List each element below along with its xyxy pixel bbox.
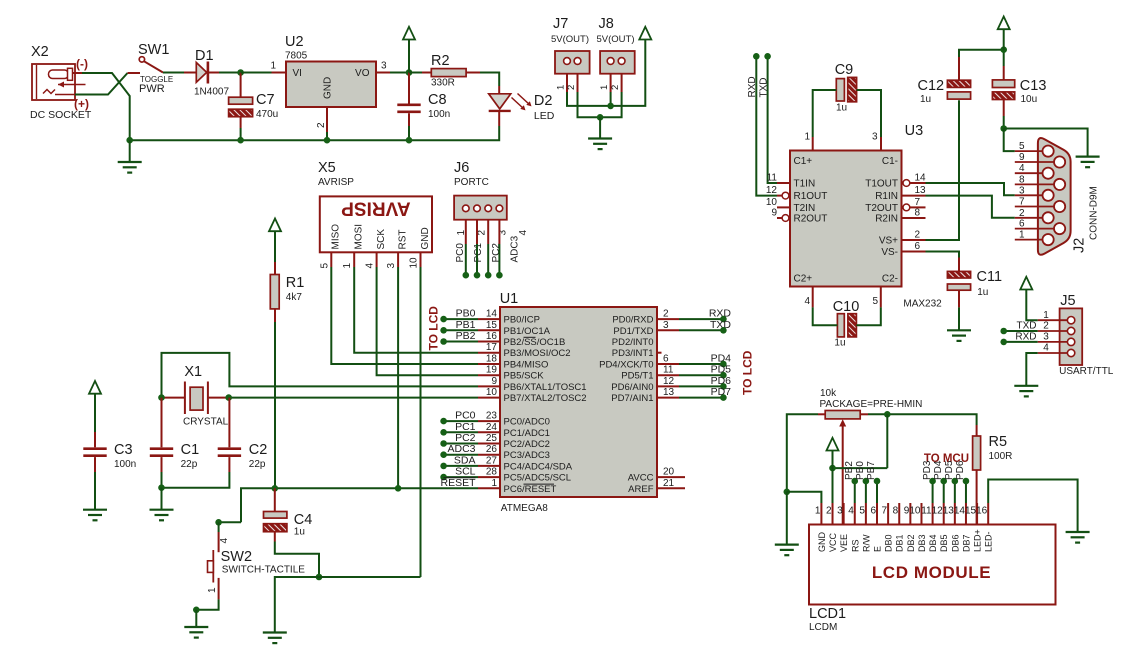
junction C1 ground node <box>158 484 165 491</box>
svg-text:DB7: DB7 <box>961 534 971 552</box>
svg-text:T1OUT: T1OUT <box>865 179 898 190</box>
svg-text:R1IN: R1IN <box>875 191 898 202</box>
svg-text:14: 14 <box>486 309 498 320</box>
svg-text:5V(OUT): 5V(OUT) <box>551 34 589 45</box>
ground symbol below J7/J8 <box>588 139 612 150</box>
svg-text:14: 14 <box>954 506 966 517</box>
svg-text:R1OUT: R1OUT <box>794 191 828 202</box>
svg-text:1u: 1u <box>836 103 847 114</box>
svg-text:6: 6 <box>870 506 876 517</box>
svg-text:3: 3 <box>386 263 397 269</box>
wire LCD pin 5 to net PB0 <box>865 481 867 503</box>
svg-text:CRYSTAL: CRYSTAL <box>183 417 229 428</box>
svg-text:DB0: DB0 <box>884 534 894 552</box>
svg-text:TO LCD: TO LCD <box>741 350 755 395</box>
node RXD dot right of U1 <box>720 316 727 323</box>
capacitor C7 470u <box>229 73 253 129</box>
wire C2 bottom to C1 bottom <box>162 472 230 488</box>
wire VCC node to LCD pin2 <box>832 468 834 503</box>
wire T1OUT to J2 pin3 <box>926 183 1015 195</box>
ground symbol below rail <box>118 162 142 173</box>
svg-text:T1IN: T1IN <box>794 179 816 190</box>
junction ground rail at SW1 branch <box>126 137 133 144</box>
svg-text:T2OUT: T2OUT <box>865 203 898 214</box>
wire net SDA to U1 <box>444 465 478 467</box>
svg-text:C1-: C1- <box>882 156 898 167</box>
wire SW2 pin1 to ground <box>196 599 218 609</box>
svg-text:1u: 1u <box>920 94 931 105</box>
wire J7 pin2 and J8 pin2 ground <box>578 92 622 117</box>
svg-text:100R: 100R <box>989 451 1013 462</box>
pin 14 T1OUT of U3 with bubble <box>903 173 926 187</box>
node PC1 dot <box>440 429 447 436</box>
svg-text:2: 2 <box>1043 321 1049 332</box>
wire LCD pin16 to ground <box>988 480 1077 532</box>
svg-text:15: 15 <box>965 506 977 517</box>
svg-text:10: 10 <box>909 506 921 517</box>
svg-text:19: 19 <box>486 365 498 376</box>
svg-text:MOSI: MOSI <box>354 224 365 250</box>
svg-text:PACKAGE=PRE-HMIN: PACKAGE=PRE-HMIN <box>820 399 923 410</box>
wire junction to ground symbol <box>599 117 601 138</box>
svg-text:3: 3 <box>872 132 878 143</box>
junction ground rail at U2 GND <box>324 137 331 144</box>
svg-text:GND: GND <box>817 532 827 553</box>
connector J5 USART/TTL <box>1038 308 1083 365</box>
pin 6 PD4/XCK/T0 of U1 <box>599 354 679 371</box>
wire net PB0 to U1 <box>444 318 478 320</box>
svg-text:ATMEGA8: ATMEGA8 <box>501 503 548 514</box>
node PD4 dot right of U1 <box>720 361 727 368</box>
svg-text:2: 2 <box>316 122 327 128</box>
svg-text:R5: R5 <box>989 434 1008 450</box>
wire net PC2 to U1 <box>444 443 478 445</box>
svg-text:DC SOCKET: DC SOCKET <box>30 109 92 121</box>
svg-text:2: 2 <box>826 506 832 517</box>
svg-text:4: 4 <box>804 296 810 307</box>
wire J6 pin 4 to net ADC3 <box>498 244 500 275</box>
node PD4 dot at LCD <box>940 478 947 485</box>
svg-text:DB3: DB3 <box>917 534 927 552</box>
junction RESET at R1/C4 <box>272 485 279 492</box>
power flag +5V above LCD VCC <box>827 438 839 451</box>
svg-text:4: 4 <box>365 263 376 269</box>
wire RESET net to U1 PC6 <box>241 488 478 522</box>
wire power flag above C13 <box>1003 30 1005 50</box>
svg-text:PC2: PC2 <box>491 243 502 263</box>
wire SW2 branch of RESET <box>219 521 241 523</box>
svg-text:8: 8 <box>1019 174 1025 185</box>
svg-text:5: 5 <box>872 296 878 307</box>
svg-text:DB1: DB1 <box>895 534 905 552</box>
wire MISO from X5 to U1 PB4 <box>331 267 478 364</box>
wire VCC node down to arrow node <box>886 414 888 468</box>
svg-text:GND: GND <box>420 227 431 249</box>
node PD7 dot right of U1 <box>720 394 727 401</box>
wire R1 to RESET net <box>274 322 276 488</box>
wire ground rail <box>130 126 500 140</box>
connector J6 PORTC <box>454 196 507 220</box>
pin 15 PB1/OC1A of U1 <box>478 320 551 337</box>
svg-text:1N4007: 1N4007 <box>194 87 229 98</box>
wire U1 to net PD4 <box>679 363 723 365</box>
svg-text:SW1: SW1 <box>138 42 169 58</box>
svg-text:9: 9 <box>771 208 777 219</box>
pin 10 PB7/XTAL2/TOSC2 of U1 <box>478 387 587 404</box>
pin 14 PB0/ICP of U1 <box>478 309 540 326</box>
connector X2 DC socket <box>32 64 86 100</box>
junction VIN node <box>237 69 244 76</box>
svg-text:J7: J7 <box>553 16 568 32</box>
svg-text:1: 1 <box>804 132 810 143</box>
connector J2 CONN-D9M <box>1015 138 1071 255</box>
junction crystal left node <box>158 394 165 401</box>
pin 12 R1OUT of U3 with bubble <box>766 185 789 199</box>
svg-text:6: 6 <box>663 354 669 365</box>
ground symbol right of LCD <box>1066 532 1090 543</box>
svg-text:VS+: VS+ <box>879 236 898 247</box>
wire rail to ground symbol <box>129 140 131 162</box>
svg-text:RESET: RESET <box>440 477 476 489</box>
junction J8 pin1 on 5V wire <box>610 92 612 106</box>
wire arrow node horizontal <box>833 467 888 469</box>
pin 1 PC6/RESET of U1 <box>478 478 556 495</box>
wire X2 plus pin to SW1 <box>75 73 128 95</box>
node PB2 dot <box>440 338 447 345</box>
svg-text:E: E <box>873 546 883 552</box>
wire VS- to C11 <box>926 252 960 258</box>
node SDA dot <box>440 463 447 470</box>
svg-text:PB1/OC1A: PB1/OC1A <box>504 326 551 337</box>
svg-text:1u: 1u <box>977 287 988 298</box>
svg-text:100n: 100n <box>428 109 450 120</box>
junction C13 bottom <box>1000 125 1007 132</box>
junction LCD VCC node <box>829 465 836 472</box>
node PB0 dot at LCD <box>863 478 870 485</box>
wire junction to J2 pin5 <box>1004 129 1015 152</box>
svg-text:10: 10 <box>409 257 420 269</box>
svg-text:PB0: PB0 <box>855 461 866 480</box>
wire pot right terminal to R5 top <box>868 414 977 425</box>
svg-text:R/W: R/W <box>861 534 871 552</box>
svg-text:14: 14 <box>915 173 927 184</box>
wire crystal right node to U1 PB7/XTAL2 <box>229 397 478 399</box>
pin 9 PB6/XTAL1/TOSC1 of U1 <box>478 376 587 393</box>
wire D1 to node VIN <box>219 72 241 74</box>
svg-text:X2: X2 <box>31 44 49 60</box>
svg-text:C13: C13 <box>1020 78 1047 94</box>
wire C10 left to U3 pin4 <box>813 307 838 325</box>
svg-text:28: 28 <box>486 467 498 478</box>
svg-text:4k7: 4k7 <box>286 292 303 303</box>
pin 27 PC4/ADC4/SDA of U1 <box>478 455 573 472</box>
svg-text:LED-: LED- <box>984 531 994 552</box>
svg-text:PC2: PC2 <box>455 432 476 444</box>
wire C7 to ground rail <box>240 128 242 140</box>
svg-text:2: 2 <box>915 230 921 241</box>
wire C12 top to C13 top and power flag <box>959 50 1004 66</box>
wire SW1 to D1 <box>163 72 184 74</box>
svg-text:3: 3 <box>663 320 669 331</box>
svg-text:9: 9 <box>491 376 497 387</box>
pin 18 PB4/MISO of U1 <box>478 354 548 371</box>
wire RST from X5 to RESET net <box>397 267 399 488</box>
svg-text:AVCC: AVCC <box>628 473 654 484</box>
svg-text:ADC3: ADC3 <box>509 235 520 262</box>
svg-text:PC6/RESET: PC6/RESET <box>504 484 557 495</box>
wire power flag to C3 <box>94 394 96 432</box>
svg-text:1: 1 <box>342 263 353 269</box>
svg-text:13: 13 <box>663 387 675 398</box>
svg-text:5V(OUT): 5V(OUT) <box>597 34 635 45</box>
wire LCD pin 14 to net PD6 <box>965 481 967 503</box>
svg-text:PB1: PB1 <box>456 319 476 331</box>
svg-text:7805: 7805 <box>285 51 308 62</box>
svg-text:X5: X5 <box>318 160 336 176</box>
resistor R1 4k7 <box>270 262 279 322</box>
svg-text:DB5: DB5 <box>939 534 949 552</box>
svg-text:PD3: PD3 <box>922 460 933 480</box>
svg-text:12: 12 <box>932 506 944 517</box>
net wire TXD vertical to U3 T1IN <box>768 56 777 183</box>
pin PD3/INT1 of U1 <box>612 348 662 359</box>
svg-text:100n: 100n <box>114 459 136 470</box>
svg-text:PD4: PD4 <box>933 460 944 480</box>
svg-text:(-): (-) <box>76 57 88 71</box>
svg-text:LCDM: LCDM <box>809 622 837 633</box>
wire U2 GND pin to ground rail <box>326 132 328 140</box>
power flag +5V above C8 <box>403 27 415 40</box>
wire U1 to net PD6 <box>679 385 723 387</box>
svg-text:TO LCD: TO LCD <box>427 306 441 351</box>
svg-text:7: 7 <box>915 197 921 208</box>
svg-text:470u: 470u <box>256 109 278 120</box>
LED D2 <box>489 86 532 126</box>
svg-text:PC5/ADC5/SCL: PC5/ADC5/SCL <box>504 473 572 484</box>
svg-text:SDA: SDA <box>454 454 476 466</box>
svg-text:4: 4 <box>1019 163 1025 174</box>
pin 28 PC5/ADC5/SCL of U1 <box>478 467 571 484</box>
power flag +5V above R1 <box>269 219 281 232</box>
potentiometer 10k PRE-HMIN <box>818 411 868 525</box>
node RXD dot at J5 <box>1000 339 1007 346</box>
node TXD dot right of U1 <box>720 327 727 334</box>
svg-text:10k: 10k <box>820 388 837 399</box>
svg-text:10: 10 <box>766 197 778 208</box>
svg-text:PB7/XTAL2/TOSC2: PB7/XTAL2/TOSC2 <box>504 393 587 404</box>
svg-text:1: 1 <box>207 587 218 593</box>
svg-text:DB6: DB6 <box>950 534 960 552</box>
junction crystal right node <box>225 394 232 401</box>
svg-text:22p: 22p <box>181 459 198 470</box>
wire C9 left to U3 pin1 <box>813 90 837 137</box>
svg-text:7: 7 <box>1019 197 1025 208</box>
wire VS+ to C12 <box>926 100 960 240</box>
pin PD2/INT0 of U1 <box>612 337 654 348</box>
svg-text:PB4/MISO: PB4/MISO <box>504 360 549 371</box>
svg-text:LCD MODULE: LCD MODULE <box>872 563 991 582</box>
pin 7 T2OUT of U3 with bubble <box>903 197 926 211</box>
node PB1 dot <box>440 327 447 334</box>
svg-text:TXD: TXD <box>1017 321 1037 332</box>
node PC1 dot at J6 <box>474 272 481 279</box>
svg-text:C1+: C1+ <box>794 156 813 167</box>
wire power flag to VCC node <box>832 451 834 469</box>
wire net ADC3 to U1 <box>444 454 478 456</box>
svg-text:13: 13 <box>915 185 927 196</box>
svg-text:6: 6 <box>1019 219 1025 230</box>
capacitor C12 1u <box>947 57 970 99</box>
svg-text:C8: C8 <box>428 92 447 108</box>
svg-text:20: 20 <box>663 467 675 478</box>
node PD3 dot at LCD <box>929 478 936 485</box>
svg-text:21: 21 <box>663 478 675 489</box>
svg-text:PB2/SS/OC1B: PB2/SS/OC1B <box>504 337 566 348</box>
pin 6 VS- of U3 <box>902 241 926 252</box>
junction SW2 ground corner <box>193 607 200 614</box>
svg-text:26: 26 <box>486 444 498 455</box>
svg-text:USART/TTL: USART/TTL <box>1059 366 1114 377</box>
connector J8 5V(OUT) <box>600 51 635 92</box>
svg-text:PB2: PB2 <box>844 461 855 480</box>
pin 12 PD6/AIN0 of U1 <box>611 376 679 393</box>
svg-text:R2: R2 <box>431 53 450 69</box>
svg-text:PD7/AIN1: PD7/AIN1 <box>611 393 653 404</box>
svg-text:RXD: RXD <box>1015 331 1036 342</box>
svg-text:18: 18 <box>486 354 498 365</box>
wire U2 VO to node VCC5 <box>390 72 409 74</box>
svg-text:PC4/ADC4/SDA: PC4/ADC4/SDA <box>504 461 573 472</box>
svg-text:27: 27 <box>486 455 498 466</box>
resistor R2 330R <box>409 69 480 77</box>
wire bottom ground rail <box>275 577 421 632</box>
svg-text:DB4: DB4 <box>928 534 938 552</box>
svg-text:PB3/MOSI/OC2: PB3/MOSI/OC2 <box>504 348 571 359</box>
pin 25 PC2/ADC2 of U1 <box>478 433 550 450</box>
ground symbol below C1 <box>150 510 174 521</box>
svg-text:3: 3 <box>1043 332 1049 343</box>
svg-text:C3: C3 <box>114 442 133 458</box>
svg-text:PD5: PD5 <box>944 460 955 480</box>
svg-text:AVRISP: AVRISP <box>318 177 354 188</box>
node PC0 dot at J6 <box>463 272 470 279</box>
wire LCD pin 11 to net PD3 <box>932 481 934 503</box>
svg-text:CONN-D9M: CONN-D9M <box>1089 186 1100 240</box>
svg-text:ADC3: ADC3 <box>447 443 475 455</box>
pin 19 PB5/SCK of U1 <box>478 365 544 382</box>
svg-text:SWITCH-TACTILE: SWITCH-TACTILE <box>222 565 305 576</box>
svg-text:TXD: TXD <box>759 78 770 98</box>
junction ground rail at C7 <box>237 137 244 144</box>
pin 3 PD1/TXD of U1 <box>613 320 679 337</box>
svg-text:VS-: VS- <box>881 247 898 258</box>
svg-text:SCK: SCK <box>376 229 387 250</box>
pin 24 PC1/ADC1 of U1 <box>478 422 550 439</box>
capacitor C3 100n <box>83 432 106 472</box>
wire to SW2 ground symbol <box>195 610 197 627</box>
svg-text:PD1/TXD: PD1/TXD <box>613 326 653 337</box>
node PD5 dot at LCD <box>952 478 959 485</box>
svg-text:RS: RS <box>850 539 860 552</box>
svg-text:1u: 1u <box>294 527 305 538</box>
pin 20 AVCC of U1 <box>628 467 685 484</box>
wire TXD to J5 pin2 <box>1004 330 1038 332</box>
pin 9 R2OUT of U3 with bubble <box>771 208 788 222</box>
svg-text:1u: 1u <box>834 338 845 349</box>
wire power flag to R1 <box>274 231 276 262</box>
ground symbol right of J2 <box>1076 157 1100 168</box>
node PD5 dot right of U1 <box>720 372 727 379</box>
svg-text:7: 7 <box>882 506 888 517</box>
svg-text:12: 12 <box>663 376 675 387</box>
junction ground rail at C8 <box>406 137 413 144</box>
svg-text:U3: U3 <box>905 123 924 139</box>
svg-text:2: 2 <box>610 85 621 90</box>
svg-text:3: 3 <box>381 61 387 72</box>
wire C1 to ground node <box>161 472 163 488</box>
svg-text:PWR: PWR <box>139 83 165 95</box>
wire J6 pin 3 to net PC2 <box>487 244 489 275</box>
svg-text:C12: C12 <box>918 78 945 94</box>
wire R1IN to J2 pin2 <box>926 196 1015 218</box>
switch SW2 SWITCH-TACTILE <box>208 532 219 599</box>
wire C10 right to U3 pin5 <box>856 307 880 325</box>
pin 2 PD0/RXD of U1 <box>612 309 679 326</box>
pin 26 PC3/ADC3 of U1 <box>478 444 550 461</box>
svg-text:5: 5 <box>859 506 865 517</box>
pin 2 VS+ of U3 <box>902 230 926 241</box>
regulator U2 7805 <box>272 62 391 133</box>
svg-text:J2: J2 <box>1072 238 1088 253</box>
svg-text:C2-: C2- <box>882 274 898 285</box>
wire net SCL to U1 <box>444 476 478 478</box>
svg-text:1: 1 <box>815 506 821 517</box>
node PC0 dot <box>440 418 447 425</box>
svg-text:PC1: PC1 <box>455 421 476 433</box>
svg-text:C2+: C2+ <box>794 274 813 285</box>
wire junction to DB9 ground <box>1004 129 1088 157</box>
node RXD dot top <box>753 53 760 60</box>
svg-text:PB2: PB2 <box>456 330 476 342</box>
svg-text:RXD: RXD <box>747 76 758 97</box>
wire U1 to net PD7 <box>679 397 723 399</box>
wire crystal ground node down <box>161 488 163 510</box>
svg-text:C11: C11 <box>977 269 1003 285</box>
pin 13 PD7/AIN1 of U1 <box>611 387 679 404</box>
svg-text:1: 1 <box>491 478 497 489</box>
wire net PC0 to U1 <box>444 420 478 422</box>
svg-text:15: 15 <box>486 320 498 331</box>
svg-text:PB6/XTAL1/TOSC1: PB6/XTAL1/TOSC1 <box>504 382 587 393</box>
wire J6 pin 1 to net PC0 <box>465 244 467 275</box>
wire net PB1 to U1 <box>444 329 478 331</box>
connector J7 5V(OUT) <box>555 51 590 92</box>
wire LCD pin 4 to net PB2 <box>854 481 856 503</box>
svg-text:T2IN: T2IN <box>794 203 816 214</box>
svg-text:330R: 330R <box>431 78 455 89</box>
wire U1 to net PD5 <box>679 374 723 376</box>
svg-text:2: 2 <box>566 85 577 90</box>
wire VIN node to U2 VI <box>241 72 272 74</box>
wire RXD to J5 pin3 <box>1004 341 1038 343</box>
svg-text:DB2: DB2 <box>906 534 916 552</box>
svg-text:17: 17 <box>486 342 498 353</box>
svg-text:PB5/SCK: PB5/SCK <box>504 371 545 382</box>
wire C8 to ground rail <box>408 126 410 140</box>
svg-text:C10: C10 <box>833 299 860 315</box>
svg-text:R2OUT: R2OUT <box>794 214 828 225</box>
ground symbol below C3 <box>83 510 107 521</box>
